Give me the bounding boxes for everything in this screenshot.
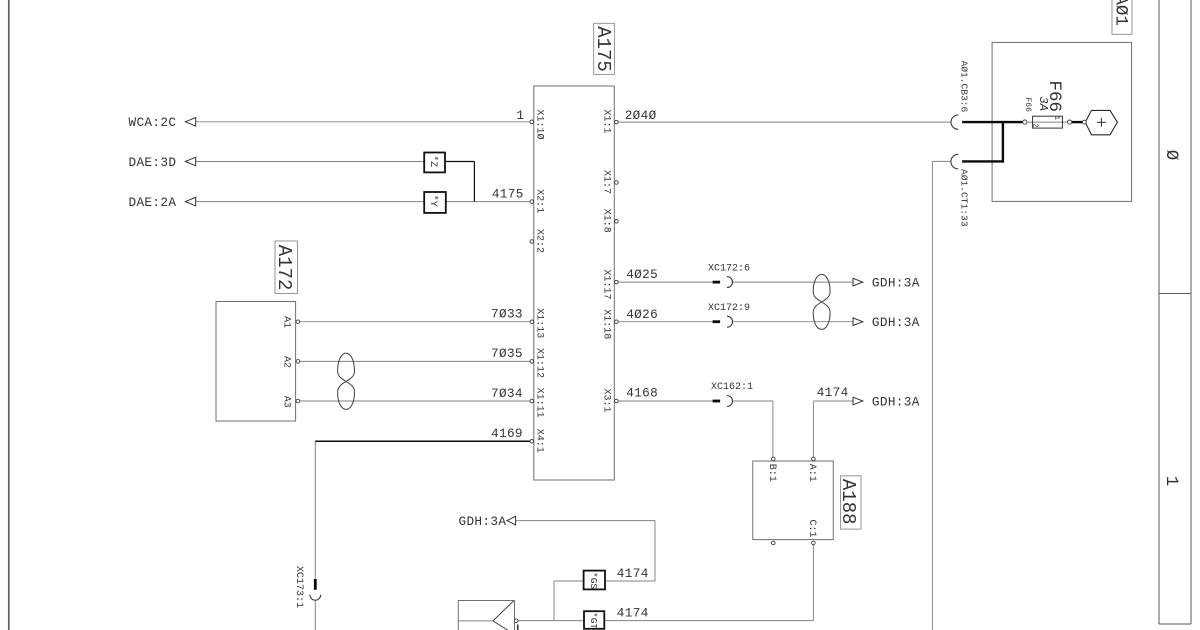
svg-text:1: 1: [516, 108, 524, 123]
svg-text:A188: A188: [837, 479, 859, 525]
svg-text:X1:7: X1:7: [600, 170, 611, 194]
svg-text:2Ø4Ø: 2Ø4Ø: [625, 108, 657, 123]
svg-text:XC173:1: XC173:1: [293, 566, 304, 608]
svg-text:A:1: A:1: [806, 464, 817, 482]
svg-text:4175: 4175: [492, 186, 524, 201]
svg-text:1: 1: [1161, 476, 1181, 487]
svg-text:X1:12: X1:12: [534, 348, 545, 378]
svg-text:A175: A175: [592, 26, 614, 72]
svg-text:XC172:6: XC172:6: [708, 263, 750, 274]
svg-text:X1:13: X1:13: [534, 308, 545, 338]
svg-text:Ø: Ø: [1161, 150, 1181, 161]
svg-text:4174: 4174: [817, 385, 849, 400]
svg-text:GDH:3A: GDH:3A: [459, 514, 507, 529]
svg-text:DAE:2A: DAE:2A: [129, 195, 177, 210]
svg-text:7Ø33: 7Ø33: [491, 306, 523, 321]
svg-text:X1:1Ø: X1:1Ø: [534, 110, 546, 140]
svg-text:*Z: *Z: [427, 155, 439, 167]
svg-text:4Ø25: 4Ø25: [626, 267, 658, 282]
svg-text:4168: 4168: [626, 386, 658, 401]
svg-text:B:1: B:1: [766, 464, 777, 482]
svg-text:X1:18: X1:18: [600, 309, 611, 339]
svg-text:X3:1: X3:1: [600, 389, 611, 413]
svg-text:4174: 4174: [617, 566, 649, 581]
svg-text:X1:17: X1:17: [600, 270, 611, 300]
svg-text:4Ø26: 4Ø26: [626, 307, 658, 322]
svg-text:*Y: *Y: [427, 195, 439, 207]
svg-text:C:1: C:1: [806, 520, 817, 538]
svg-text:WCA:2C: WCA:2C: [129, 115, 177, 130]
svg-text:A1: A1: [280, 316, 291, 328]
svg-text:*GT: *GT: [588, 612, 599, 629]
svg-text:GDH:3A: GDH:3A: [872, 394, 920, 409]
svg-text:DAE:3D: DAE:3D: [129, 155, 177, 170]
svg-text:3A: 3A: [1036, 97, 1050, 111]
svg-text:4174: 4174: [617, 606, 649, 621]
svg-text:GDH:3A: GDH:3A: [872, 315, 920, 330]
svg-text:XC172:9: XC172:9: [708, 303, 750, 314]
svg-text:X4:1: X4:1: [534, 429, 545, 453]
svg-text:X1:1: X1:1: [600, 110, 611, 134]
svg-text:*GS: *GS: [588, 572, 599, 589]
svg-text:GDH:3A: GDH:3A: [872, 275, 920, 290]
svg-text:X2:2: X2:2: [534, 229, 545, 253]
svg-text:XC162:1: XC162:1: [711, 382, 753, 393]
svg-text:A172: A172: [273, 245, 295, 291]
svg-text:AØ1: AØ1: [1111, 0, 1131, 26]
svg-text:X1:8: X1:8: [600, 209, 611, 233]
svg-text:2: 2: [1030, 123, 1038, 127]
svg-text:F66: F66: [1023, 98, 1032, 113]
svg-text:X2:1: X2:1: [534, 189, 545, 213]
svg-text:4169: 4169: [491, 426, 523, 441]
svg-text:A3: A3: [280, 396, 291, 408]
svg-text:X1:11: X1:11: [534, 388, 545, 418]
svg-text:AØ1.CB3:6: AØ1.CB3:6: [959, 61, 970, 113]
svg-text:7Ø34: 7Ø34: [491, 386, 523, 401]
svg-text:A2: A2: [280, 356, 291, 368]
svg-text:1: 1: [1052, 116, 1060, 120]
svg-text:AØ1.CT1:33: AØ1.CT1:33: [959, 169, 970, 227]
svg-text:7Ø35: 7Ø35: [491, 346, 523, 361]
